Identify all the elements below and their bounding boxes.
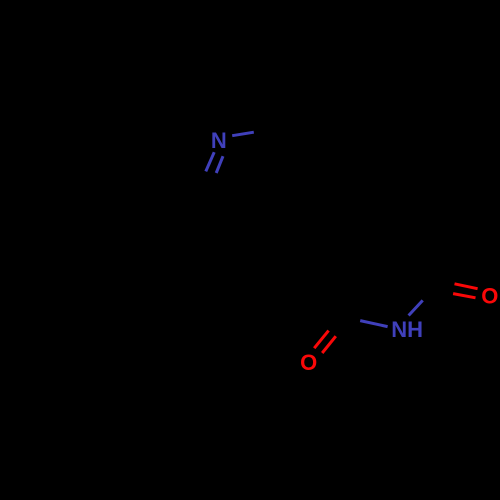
svg-text:NH: NH [391, 317, 423, 342]
bond N3-C4 single bond (blue half) [360, 321, 387, 327]
bond N3-C5 single bond (blue half) [409, 300, 423, 315]
bond N1-C9 single bond (blue half) [232, 132, 254, 136]
svg-text:N: N [211, 128, 227, 153]
svg-text:O: O [300, 350, 317, 375]
bond C5=O2 double bond upper line (red half) [455, 284, 478, 289]
bond C4=O1 double bond upper line (red half) [322, 336, 336, 353]
bond C5=O2 double bond lower line (red half) [453, 294, 475, 298]
bond C8a-C2 (black, invisible on black) [143, 180, 196, 192]
svg-text:O: O [481, 284, 498, 309]
bond C2=N1 double bond outer line (blue half) [216, 156, 223, 173]
bond C2=N1 double bond inner line (blue half) [206, 152, 214, 171]
bond C4=O1 double bond lower line (red half) [314, 331, 328, 349]
